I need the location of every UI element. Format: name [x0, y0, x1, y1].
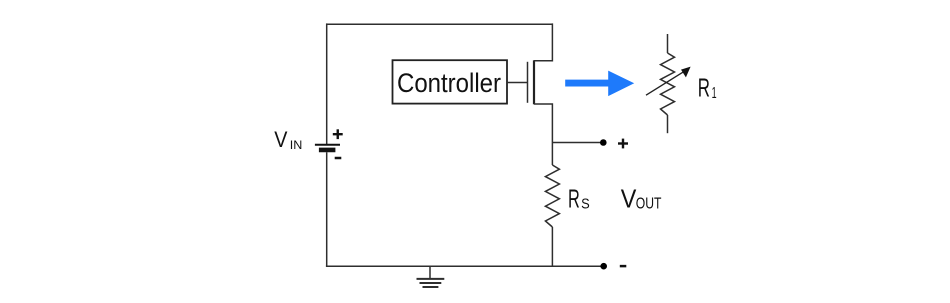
svg-text:V: V	[274, 127, 287, 152]
wire left vertical upper	[326, 23, 328, 144]
battery V_IN plates	[315, 145, 340, 150]
wire left vertical lower	[326, 152, 328, 266]
transistor Q1 drain segment	[534, 23, 552, 60]
R1 wiper arrow	[646, 67, 691, 96]
svg-text:S: S	[581, 196, 590, 212]
wire to plus node	[552, 142, 600, 144]
svg-text:V: V	[621, 184, 637, 214]
svg-text:R: R	[568, 186, 580, 214]
resistor R1 top lead	[667, 34, 669, 53]
transistor Q1 source segment	[534, 104, 552, 165]
label R1	[698, 75, 717, 103]
svg-text:R: R	[698, 75, 710, 103]
svg-text:Controller: Controller	[397, 68, 501, 98]
battery minus sign	[335, 157, 342, 160]
plus output sign	[618, 139, 628, 149]
transistor Q1 channel bar	[533, 60, 535, 104]
label RS	[568, 186, 590, 214]
minus output sign	[620, 265, 627, 268]
svg-text:1: 1	[712, 85, 717, 102]
wire gate	[507, 82, 528, 84]
blue arrow	[565, 71, 634, 97]
resistor R1 bottom lead	[667, 115, 669, 133]
transistor Q1 gate bar	[527, 62, 529, 103]
wire top bus	[327, 23, 553, 25]
label V_OUT	[621, 184, 662, 214]
node plus dot	[600, 139, 607, 146]
label V_IN	[274, 127, 302, 152]
wire RS bottom lead	[551, 227, 553, 266]
ground	[417, 266, 445, 287]
battery plus sign	[333, 129, 343, 139]
controller box U1	[393, 60, 508, 103]
wire bottom bus	[326, 265, 604, 267]
node minus dot	[600, 263, 607, 270]
svg-text:IN: IN	[290, 138, 303, 152]
resistor RS zigzag	[545, 165, 559, 227]
resistor R1 zigzag	[661, 53, 675, 115]
svg-text:OUT: OUT	[636, 195, 662, 212]
